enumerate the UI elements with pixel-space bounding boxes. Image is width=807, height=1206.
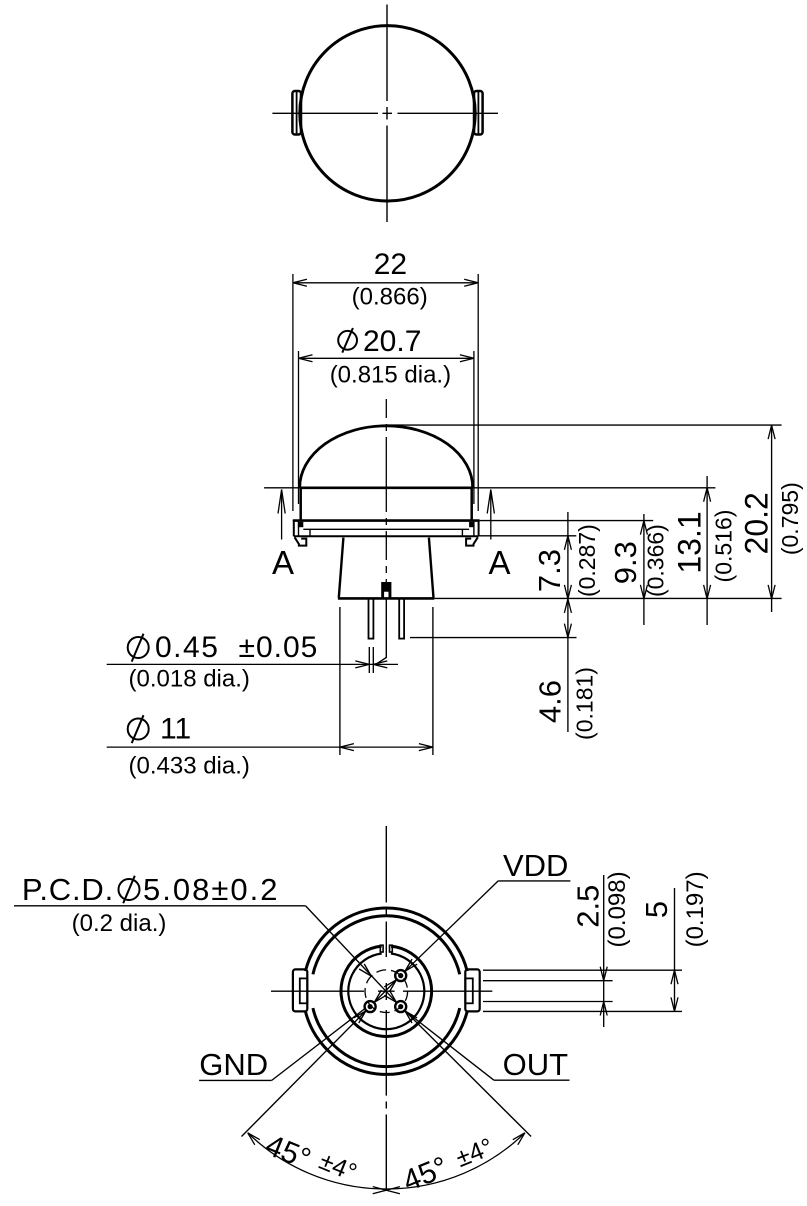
svg-text:(0.433 dia.): (0.433 dia.) xyxy=(128,752,249,779)
svg-text:(0.866): (0.866) xyxy=(352,284,428,311)
diagonal D2 upper segment PCD leader xyxy=(306,906,397,1002)
diameter symbol 0.45 xyxy=(128,634,149,662)
VDD pin xyxy=(395,970,406,981)
top view right tab xyxy=(474,91,483,135)
svg-text:P.C.D.: P.C.D. xyxy=(22,872,114,907)
side view vertical centerline xyxy=(385,399,387,582)
dimension 7.3 arrows xyxy=(564,536,571,599)
lens side walls xyxy=(301,488,472,521)
can bottom extension right xyxy=(434,597,781,599)
PCD underline xyxy=(14,905,306,907)
dimension 20.2 line xyxy=(771,427,773,612)
pin tip extension line xyxy=(410,637,577,639)
arrow at GND lower left xyxy=(354,1011,366,1023)
OUT pin xyxy=(395,1001,406,1012)
arrow at VDD lower left xyxy=(384,980,396,992)
flange top line xyxy=(293,519,480,522)
svg-text:(0.366): (0.366) xyxy=(642,524,668,597)
flange right edge xyxy=(478,520,480,536)
diagonal D1 middle segment xyxy=(374,980,396,1002)
can trapezoid sides xyxy=(339,538,434,598)
svg-text:(0.795): (0.795) xyxy=(777,482,803,555)
left hook xyxy=(295,537,307,545)
section line left xyxy=(281,490,283,540)
svg-text:(0.2 dia.): (0.2 dia.) xyxy=(72,910,167,937)
lens base extension right xyxy=(473,487,716,489)
bottom view left tab xyxy=(293,969,307,1011)
top view outer circle xyxy=(300,26,475,201)
angle arc bottom right arrow xyxy=(386,1187,400,1194)
bottom view left tab inner rect xyxy=(300,978,308,1003)
bottom view outer circle bottom arc xyxy=(305,1011,467,1074)
svg-text:A: A xyxy=(272,544,294,581)
top view horizontal centerline xyxy=(272,112,498,114)
svg-text:11: 11 xyxy=(160,713,191,746)
top view left tab inner line xyxy=(296,92,298,134)
top view vertical centerline xyxy=(386,5,388,223)
flange left edge xyxy=(293,520,295,536)
svg-text:22: 22 xyxy=(374,248,407,281)
svg-text:(0.815 dia.): (0.815 dia.) xyxy=(330,361,451,388)
bottom view right tab xyxy=(465,969,479,1011)
angle arc bottom left arrow xyxy=(373,1187,387,1194)
flange top extension right xyxy=(480,520,654,522)
dimension dia 20.7 extension lines xyxy=(299,351,474,504)
dia 11 arrows xyxy=(340,744,433,751)
arrow at PCD circle xyxy=(359,964,371,976)
pin tangent extension top inner xyxy=(483,980,613,982)
arrow at OUT lower right xyxy=(405,1011,417,1023)
dia 0.45 arrows xyxy=(355,661,387,668)
pin tangent extension bottom inner xyxy=(483,1001,613,1003)
svg-text:0.45: 0.45 xyxy=(155,631,219,664)
VDD underline xyxy=(498,880,570,882)
bottom view right tab inner rect xyxy=(465,978,473,1003)
svg-text:(0.516): (0.516) xyxy=(710,510,736,583)
dimension 9.3 arrows xyxy=(640,521,647,599)
angle arc right arrow xyxy=(513,1133,525,1145)
arrow at VDD upper right xyxy=(405,959,417,971)
svg-text:VDD: VDD xyxy=(503,848,568,883)
svg-text:20.2: 20.2 xyxy=(739,492,775,554)
dimension 22 left arrow xyxy=(293,279,307,286)
dimension dia 20.7 left arrow xyxy=(299,355,313,362)
pin tangent extension top outer xyxy=(483,969,682,971)
ring notch right square xyxy=(390,945,393,952)
dimension 2.5 arrows xyxy=(600,967,607,1016)
dimension 5 line xyxy=(674,888,676,1010)
diameter symbol 20.7 xyxy=(338,328,357,353)
flange bottom line xyxy=(294,535,478,537)
can bottom line xyxy=(338,597,434,600)
dia 0.45 ticks xyxy=(369,647,373,673)
flange left black tab xyxy=(298,522,303,527)
inner ring inner circle xyxy=(348,954,424,1030)
GND underline xyxy=(199,1079,272,1081)
lens base extension left xyxy=(264,487,300,489)
OUT leader xyxy=(405,1011,494,1081)
dimension 22 line xyxy=(293,282,478,284)
svg-text:20.7: 20.7 xyxy=(363,325,421,358)
flange bottom extension right xyxy=(478,535,576,537)
top view right tab inner line xyxy=(477,92,479,134)
diagonal D2 lower segment right leg xyxy=(405,1011,531,1137)
bottom view vertical centerline xyxy=(385,826,387,1191)
svg-text:4.6: 4.6 xyxy=(533,680,568,723)
dimension 13.1 arrows xyxy=(704,488,711,599)
svg-text:7.3: 7.3 xyxy=(532,549,567,592)
svg-text:2.5: 2.5 xyxy=(570,885,605,928)
center pin xyxy=(376,598,387,664)
svg-text:13.1: 13.1 xyxy=(672,511,708,573)
left pin xyxy=(369,598,374,638)
GND leader xyxy=(272,1009,365,1081)
svg-text:GND: GND xyxy=(199,1047,268,1082)
svg-text:5: 5 xyxy=(639,901,674,918)
right hook xyxy=(466,537,478,545)
apex extension line xyxy=(386,424,781,426)
section arrow left xyxy=(278,490,285,514)
bottom view second circle bottom arc xyxy=(313,1008,460,1066)
dome lens arc xyxy=(300,426,473,488)
svg-text:(0.098): (0.098) xyxy=(604,871,631,947)
dimension dia 20.7 right arrow xyxy=(460,355,474,362)
lens base line xyxy=(300,486,473,489)
right pin xyxy=(399,598,404,638)
svg-text:A: A xyxy=(488,544,510,581)
top view left tab xyxy=(292,91,301,135)
dimension 22 extension lines xyxy=(293,274,478,511)
dimension 4.6 arrows xyxy=(564,599,571,638)
section line right xyxy=(490,490,492,540)
svg-text:5.08±0.2: 5.08±0.2 xyxy=(143,872,279,907)
dimension 2.5 line xyxy=(603,875,605,1027)
svg-text:(0.197): (0.197) xyxy=(682,871,709,947)
dimension 5 arrows xyxy=(671,970,678,1011)
svg-text:(0.181): (0.181) xyxy=(571,667,597,740)
bottom view second circle top arc xyxy=(313,916,460,974)
inner ring outer circle xyxy=(341,946,432,1036)
center stub xyxy=(381,582,391,598)
ring notch left square xyxy=(380,945,383,952)
bottom view outer circle top arc xyxy=(305,908,467,971)
diameter symbol 11 xyxy=(128,715,149,743)
diagonal D1 lower segment left leg xyxy=(242,1011,366,1137)
angle arc left arrow xyxy=(248,1133,260,1145)
flange short ticks xyxy=(310,529,462,536)
pin tangent extension bottom outer xyxy=(483,1010,682,1012)
PCD dashed circle xyxy=(365,970,408,1013)
flange right black tab xyxy=(469,522,474,527)
OUT underline xyxy=(494,1079,570,1081)
dimension 22 right arrow xyxy=(464,279,478,286)
section arrow right xyxy=(487,490,494,514)
dia 0.45 leader line xyxy=(107,663,398,665)
bottom view horizontal centerline xyxy=(271,990,492,992)
diagonal D1 upper segment VDD leader xyxy=(405,881,498,971)
GND pin xyxy=(365,1001,376,1012)
dimension dia 20.7 line xyxy=(299,357,474,359)
svg-text:OUT: OUT xyxy=(503,1047,569,1082)
svg-text:9.3: 9.3 xyxy=(608,541,643,584)
dimension 7.3 and 4.6 line xyxy=(567,512,569,732)
dia 11 leader line xyxy=(107,746,433,748)
flange mid line xyxy=(303,528,469,530)
arrow at GND upper right xyxy=(374,990,386,1002)
dimension 13.1 line xyxy=(706,476,708,625)
dia 11 extension lines xyxy=(340,607,433,755)
arrow at OUT upper left xyxy=(384,990,396,1002)
svg-text:(0.287): (0.287) xyxy=(574,524,600,597)
dimension 9.3 line xyxy=(643,514,645,625)
svg-text:±0.05: ±0.05 xyxy=(239,631,319,664)
flange inner verticals xyxy=(299,522,474,536)
svg-text:(0.018 dia.): (0.018 dia.) xyxy=(128,665,249,692)
dimension 20.2 arrows xyxy=(768,425,775,599)
diameter symbol PCD xyxy=(119,876,140,904)
angle arc xyxy=(248,1133,525,1189)
